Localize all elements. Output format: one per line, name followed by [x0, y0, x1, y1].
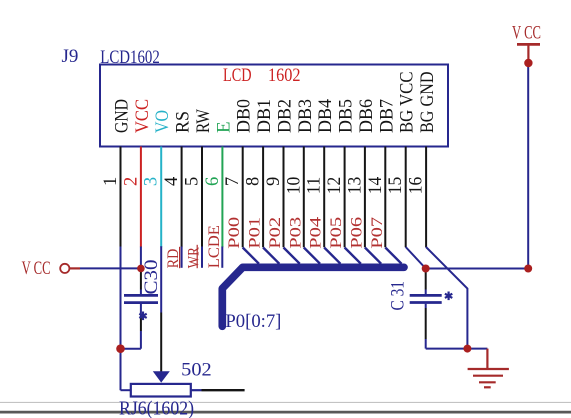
svg-text:2: 2 — [121, 177, 141, 186]
capacitor C31 plates — [410, 295, 442, 302]
svg-text:P02: P02 — [267, 217, 284, 249]
pin 1 lead wire — [120, 147, 122, 248]
svg-text:DB3: DB3 — [295, 99, 316, 133]
potentiometer RJ6 body — [131, 384, 191, 397]
svg-text:7: 7 — [223, 177, 243, 186]
svg-text:V CC: V CC — [512, 23, 541, 44]
pin 7 lead wire — [242, 147, 244, 248]
wire VCC down right side — [527, 63, 529, 269]
svg-text:VCC: VCC — [132, 99, 153, 133]
svg-text:P01: P01 — [247, 217, 264, 249]
wire pin15 BG VCC diagonal — [406, 247, 426, 269]
power port VCC stem — [527, 44, 529, 61]
wire pin2 VCC down to C30 — [140, 247, 142, 272]
net label RD with overbar — [165, 247, 182, 268]
svg-text:4: 4 — [162, 177, 182, 186]
svg-text:DB0: DB0 — [234, 99, 255, 133]
svg-text:5: 5 — [183, 177, 203, 186]
wire pin16 BG GND diagonal — [426, 247, 467, 349]
capacitor C30 plates — [124, 295, 158, 302]
pin 12 lead wire — [344, 147, 346, 248]
pin 10 lead wire — [303, 147, 305, 248]
svg-text:P07: P07 — [369, 217, 386, 249]
svg-text:1: 1 — [101, 177, 121, 186]
pin 4 lead wire — [181, 147, 183, 248]
pin 13 lead wire — [364, 147, 366, 248]
pin 5 lead wire — [201, 147, 203, 248]
C30 bottom lead — [121, 304, 141, 349]
wire DB0 tap to bus — [243, 248, 259, 264]
pin 9 lead wire — [283, 147, 285, 248]
svg-text:LCDE: LCDE — [206, 225, 223, 268]
svg-text:DB6: DB6 — [356, 99, 377, 133]
pin 2 lead wire — [140, 147, 142, 248]
svg-text:P04: P04 — [308, 217, 325, 249]
svg-text:C 31: C 31 — [388, 281, 409, 311]
pin 15 lead wire — [405, 147, 407, 248]
power port VCC left stub — [69, 267, 80, 269]
svg-text:BG GND: BG GND — [417, 72, 438, 134]
svg-text:BG VCC: BG VCC — [397, 72, 418, 134]
svg-text:RJ6(1602): RJ6(1602) — [119, 399, 194, 418]
svg-text:VO: VO — [152, 110, 173, 133]
svg-text:P0[0:7]: P0[0:7] — [225, 311, 281, 332]
C31 top lead — [425, 269, 427, 295]
bus P0[0:7] thick — [222, 267, 404, 326]
wire DB7 tap to bus — [385, 248, 401, 264]
sheet border dark line — [0, 411, 571, 414]
svg-text:8: 8 — [244, 177, 264, 186]
svg-text:P00: P00 — [226, 217, 243, 249]
wire pin5 RW end — [201, 247, 203, 268]
wire VCC horizontal to C31 — [426, 268, 529, 270]
wire C31 bottom to ground — [426, 348, 488, 350]
svg-text:15: 15 — [386, 177, 406, 195]
svg-text:C30: C30 — [141, 260, 162, 295]
svg-text:DB2: DB2 — [275, 99, 296, 133]
pin 3 lead wire — [160, 147, 162, 248]
svg-text:3: 3 — [142, 177, 162, 186]
svg-text:RS: RS — [173, 111, 194, 133]
pin 6 lead wire — [221, 147, 223, 248]
svg-text:9: 9 — [264, 177, 284, 186]
wire pin1 GND down — [120, 247, 122, 391]
svg-text:E: E — [213, 121, 234, 133]
svg-text:DB5: DB5 — [336, 99, 357, 133]
svg-text:DB7: DB7 — [376, 99, 397, 133]
svg-text:12: 12 — [325, 177, 345, 195]
svg-text:1602: 1602 — [268, 65, 301, 86]
svg-text:J9: J9 — [62, 46, 79, 67]
svg-text:6: 6 — [203, 177, 223, 186]
wire DB1 tap to bus — [263, 248, 279, 264]
svg-text:GND: GND — [112, 99, 133, 133]
pot wiper pin (black) — [160, 313, 162, 372]
wire pin3 VO down — [160, 246, 162, 312]
svg-text:11: 11 — [305, 177, 325, 195]
power port VCC left circle — [60, 264, 69, 273]
junction dot C30 bottom — [116, 344, 125, 353]
wire VCC to pin2 — [80, 267, 141, 269]
wire DB5 tap to bus — [345, 248, 361, 264]
net label WR with overbar — [186, 245, 203, 268]
C30 polarity asterisk — [139, 312, 146, 321]
junction dot C31 bottom — [463, 345, 471, 353]
pot right pin black — [202, 389, 245, 391]
svg-text:P06: P06 — [348, 217, 365, 249]
sheet border light line — [0, 401, 571, 403]
svg-text:10: 10 — [284, 177, 304, 195]
svg-text:V CC: V CC — [22, 258, 51, 279]
svg-text:14: 14 — [366, 177, 386, 195]
svg-text:WR: WR — [186, 247, 203, 268]
ground symbol — [468, 349, 509, 388]
C31 bottom lead — [425, 304, 427, 349]
pin 11 lead wire — [323, 147, 325, 248]
svg-text:502: 502 — [181, 360, 212, 381]
pin 14 lead wire — [384, 147, 386, 248]
svg-text:LCD: LCD — [223, 65, 252, 86]
C31 polarity asterisk — [445, 292, 452, 301]
junction dot VCC stem — [524, 59, 532, 67]
svg-text:RW: RW — [193, 109, 214, 133]
wire DB2 tap to bus — [284, 248, 300, 264]
pot right stub blue — [191, 389, 202, 391]
wire DB4 tap to bus — [324, 248, 340, 264]
wire DB6 tap to bus — [365, 248, 381, 264]
pin 8 lead wire — [262, 147, 264, 248]
junction dot corner right — [524, 265, 532, 273]
wire pin6 E end — [221, 247, 223, 268]
power port VCC bar — [517, 43, 540, 46]
wire DB3 tap to bus — [304, 248, 320, 264]
part value LCD 1602 — [223, 65, 301, 86]
potentiometer wiper arrow — [153, 371, 170, 382]
junction dot C31 top — [422, 265, 430, 273]
pin 16 lead wire — [425, 147, 427, 248]
svg-text:16: 16 — [407, 177, 427, 195]
svg-text:DB1: DB1 — [254, 99, 275, 133]
svg-text:13: 13 — [345, 177, 365, 195]
connector J9 body rectangle — [100, 65, 448, 147]
wire pin4 RS end — [181, 247, 183, 268]
svg-text:DB4: DB4 — [315, 99, 336, 133]
svg-text:P05: P05 — [328, 217, 345, 249]
wire pin1 to pot left — [121, 389, 131, 391]
svg-text:P03: P03 — [287, 217, 304, 249]
junction dot VCC-pin2 — [137, 265, 145, 273]
